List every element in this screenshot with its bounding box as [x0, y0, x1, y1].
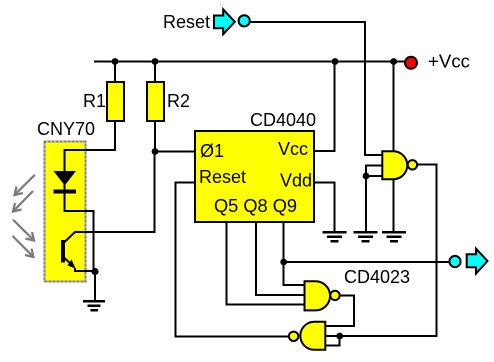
svg-text:Vdd: Vdd	[280, 171, 312, 191]
wire Reset vertical down to gate U2	[364, 21, 366, 156]
gate U2 output bubble	[408, 160, 417, 169]
svg-text:CD4040: CD4040	[250, 110, 316, 130]
ground for gate U2 inputs	[354, 232, 378, 241]
wire phototransistor collector to R2 node	[75, 152, 155, 233]
wire gate U2 inputs tie to ground	[366, 166, 382, 233]
wire Q9 node to output terminal	[284, 261, 449, 263]
wire R2 top stub	[154, 62, 156, 83]
resistor R2	[147, 82, 164, 121]
wire Q9 to gate U3	[284, 222, 305, 285]
svg-text:Q5 Q8 Q9: Q5 Q8 Q9	[214, 196, 297, 216]
Reset input arrow	[214, 9, 235, 34]
wire emitter to ground node	[75, 268, 95, 271]
wire +Vcc rail	[94, 61, 405, 63]
output terminal pad	[449, 256, 460, 267]
IR reflected arrows	[13, 220, 34, 257]
NAND gate U3 (CD4023)	[305, 281, 331, 310]
svg-text:Ø1: Ø1	[200, 141, 224, 161]
gate U4 output bubble	[289, 332, 298, 341]
svg-text:+Vcc: +Vcc	[428, 52, 470, 72]
wire Q8 to gate U3	[256, 222, 305, 295]
wire gate U2 bottom input	[366, 175, 382, 177]
wire R1 top stub	[114, 62, 116, 83]
phototransistor Q1 in CNY70	[61, 232, 76, 269]
output arrow	[467, 249, 488, 274]
wire CD4040 reset pin from gate U4 output	[176, 183, 288, 337]
wire gate U4 bottom input loop	[325, 336, 339, 346]
svg-text:R1: R1	[83, 91, 106, 111]
CNY70 sensor body	[45, 142, 86, 282]
wire Reset top horizontal	[250, 21, 366, 23]
wire node to ground	[94, 271, 96, 300]
svg-text:R2: R2	[167, 91, 190, 111]
wire LED cathode down right down	[65, 184, 94, 271]
wire clock 01 pin to node	[155, 151, 195, 153]
wire gate U2 output down to gate U4 middle input	[325, 165, 436, 336]
svg-text:CNY70: CNY70	[37, 119, 95, 139]
IC CD4040	[195, 131, 314, 222]
wire R1 bottom to LED anode	[65, 121, 116, 172]
wire gate U2 top input	[365, 154, 382, 156]
svg-text:Reset: Reset	[199, 167, 246, 187]
wire Q5 to gate U3	[226, 222, 304, 305]
resistor R1	[107, 82, 124, 121]
ground near CNY70	[83, 301, 105, 310]
svg-text:Reset: Reset	[163, 12, 210, 32]
NAND gate U4 (CD4023, mirrored)	[300, 322, 325, 350]
ground for CD4023 power	[382, 232, 406, 241]
svg-text:Vcc: Vcc	[278, 139, 308, 159]
wire Vdd pin down to ground	[314, 183, 335, 232]
wire CD4023 power from rail through gate U2	[393, 62, 395, 233]
IR emission arrows	[13, 175, 35, 212]
Reset input pad	[239, 15, 250, 26]
ground for Vdd	[323, 232, 347, 241]
NAND gate U2 (CD4023)	[382, 151, 407, 179]
LED D1 in CNY70	[54, 171, 77, 194]
gate U3 output bubble	[330, 291, 339, 300]
wire Vcc pin up to rail	[314, 62, 335, 152]
wire gate U3 output down to gate U4 input	[325, 296, 354, 326]
svg-text:CD4023: CD4023	[344, 267, 410, 287]
wire R2 bottom to node	[154, 121, 156, 152]
+Vcc terminal pad	[405, 57, 417, 69]
